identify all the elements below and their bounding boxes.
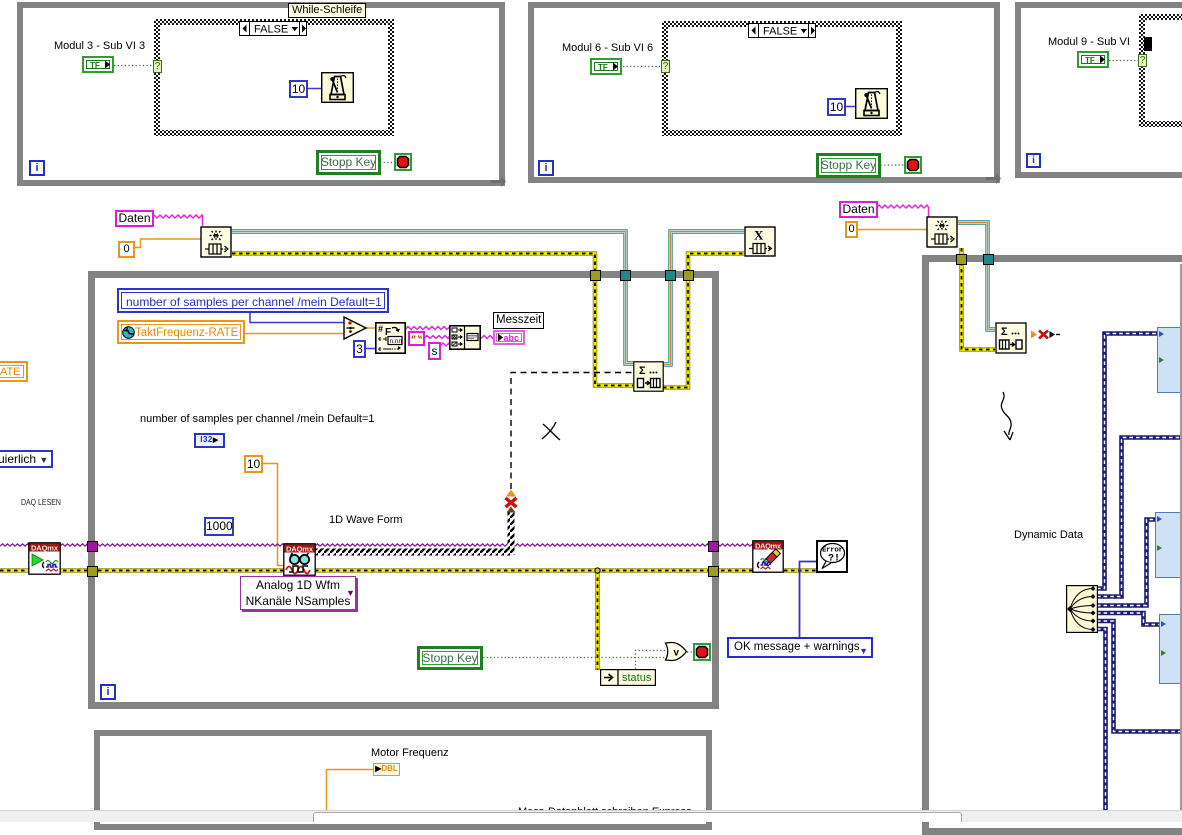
- svg-text:?!: ?!: [828, 554, 840, 565]
- svg-text:TF: TF: [1085, 56, 1095, 65]
- svg-text:DAQmx: DAQmx: [755, 541, 782, 550]
- svg-text:TF: TF: [90, 61, 100, 70]
- svg-text:TF: TF: [598, 63, 608, 72]
- svg-text:FALSE: FALSE: [763, 26, 797, 38]
- svg-text:v: v: [674, 648, 680, 659]
- svg-text:abc: abc: [504, 333, 520, 343]
- svg-text:n.nn: n.nn: [390, 338, 403, 345]
- svg-text:DAQmx: DAQmx: [286, 544, 314, 553]
- svg-text:X: X: [754, 228, 764, 243]
- svg-text:Σ: Σ: [639, 365, 646, 377]
- svg-text:FALSE: FALSE: [254, 24, 288, 36]
- svg-text:status: status: [622, 672, 652, 684]
- svg-text:DAQmx: DAQmx: [31, 543, 59, 552]
- svg-text:Σ: Σ: [1001, 326, 1008, 338]
- svg-text:#: #: [378, 324, 383, 334]
